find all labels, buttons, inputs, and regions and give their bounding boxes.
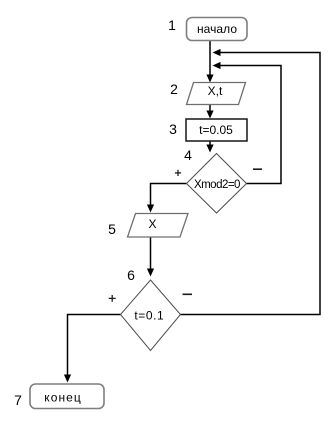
svg-text:X: X <box>148 217 156 231</box>
arrowhead into decision 6 <box>147 269 154 277</box>
plus sign decision 4 <box>175 170 181 176</box>
plus sign decision 6 <box>109 295 116 302</box>
wire: inner return loop from decision 4 (minus branch) <box>219 66 281 184</box>
arrowhead into end <box>64 375 71 383</box>
wire: output X to decision 6 <box>150 237 152 271</box>
decision 6: diamond t=0.1 <box>121 280 181 351</box>
svg-text:t=0.1: t=0.1 <box>134 308 164 322</box>
svg-text:3: 3 <box>169 121 177 137</box>
arrowhead inner loop <box>213 62 221 69</box>
process 3: rectangle t=0.05 <box>186 119 247 141</box>
svg-text:7: 7 <box>14 392 22 408</box>
svg-text:конец: конец <box>44 391 81 405</box>
arrowhead outer loop <box>213 49 221 56</box>
io 5: parallelogram X <box>128 214 189 238</box>
terminator 7: конец <box>30 384 104 409</box>
arrowhead into t=0.05 <box>206 111 213 119</box>
minus sign decision 4 <box>253 168 262 170</box>
svg-text:5: 5 <box>108 221 116 237</box>
wire: decision 6 plus branch to end <box>68 315 121 377</box>
wire: decision 4 plus branch to output X <box>151 184 187 207</box>
arrowhead into decision 4 <box>206 145 213 153</box>
wire: outer return loop from decision 6 (minus branch) <box>181 53 321 315</box>
svg-text:Xmod2=0: Xmod2=0 <box>194 179 241 191</box>
arrowhead into X,t <box>206 75 213 83</box>
svg-text:t=0.05: t=0.05 <box>199 123 233 137</box>
wire: t=0.05 to decision 4 <box>209 141 211 147</box>
io 2: parallelogram X,t <box>187 83 246 105</box>
wire: X,t to t=0.05 <box>209 105 211 113</box>
svg-text:X,t: X,t <box>208 84 223 98</box>
arrowhead into output X <box>147 205 154 213</box>
minus sign decision 6 <box>183 293 193 295</box>
svg-text:2: 2 <box>170 81 178 97</box>
terminator 1: начало <box>187 18 248 41</box>
svg-text:4: 4 <box>184 147 192 163</box>
decision 4: diamond Xmod2=0 <box>187 154 247 214</box>
svg-text:начало: начало <box>197 22 237 36</box>
svg-text:6: 6 <box>127 267 135 283</box>
svg-text:1: 1 <box>168 17 176 33</box>
wire: start to input X,t <box>209 41 211 77</box>
